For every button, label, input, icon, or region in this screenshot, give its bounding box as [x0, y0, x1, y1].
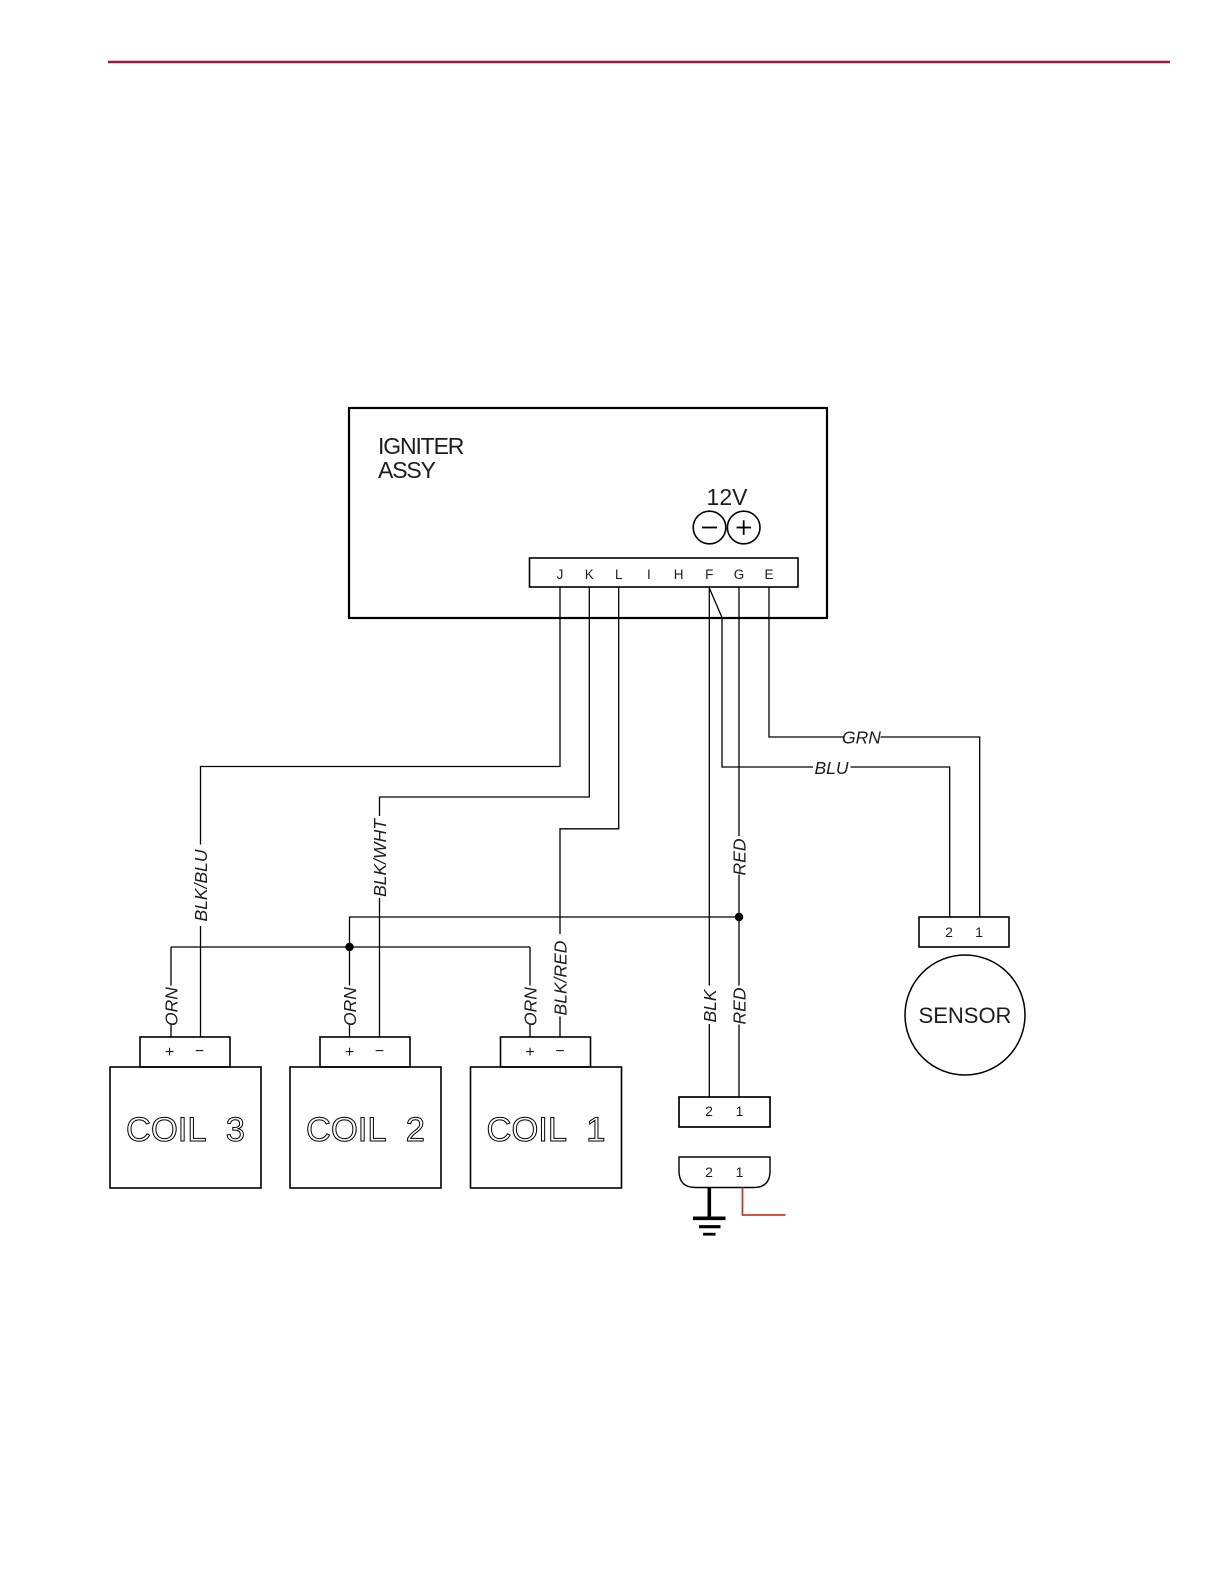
- svg-text:K: K: [585, 567, 594, 582]
- svg-text:−: −: [555, 1043, 564, 1060]
- svg-text:+: +: [525, 1044, 534, 1061]
- battery plus terminal: [727, 511, 760, 544]
- svg-text:−: −: [195, 1043, 204, 1060]
- igniter assy box U1: [349, 408, 827, 618]
- svg-text:E: E: [764, 567, 773, 582]
- junction dot on ORN bus: [346, 943, 353, 950]
- svg-text:J: J: [557, 567, 564, 582]
- coil 3 connector: [140, 1037, 230, 1067]
- svg-text:BLK/BLU: BLK/BLU: [191, 849, 211, 921]
- connector CN2 (2 1): [679, 1097, 770, 1127]
- wire pin G to connector CN2 pin 1 (RED): [738, 587, 740, 836]
- wire ORN drop to coil 2 plus: [349, 947, 351, 986]
- junction dot on RED wire: [735, 913, 742, 920]
- svg-text:1: 1: [736, 1164, 744, 1180]
- top rule: [108, 61, 1170, 64]
- wire ORN drop to coil 1 plus: [529, 947, 531, 986]
- svg-text:ASSY: ASSY: [378, 457, 436, 483]
- svg-text:RED: RED: [730, 987, 750, 1024]
- svg-text:+: +: [165, 1044, 174, 1061]
- svg-text:2: 2: [945, 924, 953, 940]
- svg-text:ORN: ORN: [521, 987, 541, 1026]
- svg-text:1: 1: [736, 1103, 744, 1119]
- svg-text:BLK/WHT: BLK/WHT: [370, 818, 390, 897]
- svg-text:−: −: [375, 1043, 384, 1060]
- coil 1 box: [471, 1067, 622, 1188]
- sensor circle: [905, 955, 1025, 1075]
- red wire from CN3 pin 1: [743, 1188, 786, 1216]
- svg-text:ORN: ORN: [340, 987, 360, 1026]
- svg-text:IGNITER: IGNITER: [378, 433, 464, 459]
- coil 1 connector: [501, 1037, 591, 1067]
- svg-text:+: +: [345, 1044, 354, 1061]
- wire pin F diagonal to BLU sensor feed: [709, 588, 813, 767]
- svg-text:1: 1: [975, 924, 983, 940]
- svg-text:BLK/RED: BLK/RED: [551, 940, 571, 1015]
- svg-text:L: L: [615, 567, 623, 582]
- coil 2 connector: [320, 1037, 410, 1067]
- wire pin E to sensor pin 1 (GRN): [769, 587, 844, 737]
- wire pin F to connector CN2 pin 2 (BLK): [708, 587, 710, 986]
- wire ORN drop to coil 3 plus: [170, 947, 172, 986]
- wire ORN bus: [171, 946, 530, 948]
- svg-text:COIL 1: COIL 1: [487, 1111, 606, 1149]
- wire pin L to coil 1 minus (BLK/RED): [560, 587, 619, 934]
- svg-text:SENSOR: SENSOR: [919, 1003, 1012, 1028]
- svg-text:I: I: [647, 567, 651, 582]
- svg-text:2: 2: [705, 1103, 713, 1119]
- svg-text:BLK: BLK: [700, 988, 720, 1022]
- coil 2 box: [290, 1067, 441, 1188]
- battery minus terminal: [693, 511, 726, 544]
- svg-text:2: 2: [705, 1164, 713, 1180]
- svg-text:COIL 3: COIL 3: [126, 1111, 245, 1149]
- svg-text:12V: 12V: [707, 484, 749, 510]
- svg-text:G: G: [734, 567, 745, 582]
- svg-text:RED: RED: [730, 838, 750, 875]
- svg-text:ORN: ORN: [162, 987, 182, 1026]
- ground: [707, 1188, 711, 1218]
- wire pin J to coil 3 minus (BLK/BLU): [201, 587, 561, 845]
- svg-text:H: H: [674, 567, 684, 582]
- connector strip J K L I H F G E: [530, 558, 799, 587]
- sensor connector (2 1): [919, 917, 1009, 947]
- svg-text:GRN: GRN: [842, 728, 881, 748]
- wire pin K to coil 2 minus (BLK/WHT): [380, 587, 590, 816]
- svg-text:COIL 2: COIL 2: [306, 1111, 425, 1149]
- coil 3 box: [110, 1067, 261, 1188]
- label IGNITER ASSY: [378, 433, 464, 483]
- wire RED branch to ORN bus: [350, 917, 740, 947]
- svg-text:BLU: BLU: [814, 758, 848, 778]
- svg-text:F: F: [705, 567, 713, 582]
- connector CN3 (2 1) rounded: [679, 1157, 770, 1188]
